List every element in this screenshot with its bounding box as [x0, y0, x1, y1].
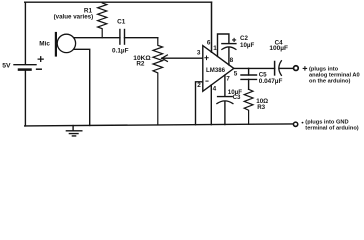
capacitor C5 bottom plate: [241, 78, 257, 80]
capacitor C4 curved plate: [279, 61, 282, 76]
svg-text:R2: R2: [136, 61, 145, 68]
dot before GND note: [302, 122, 304, 124]
svg-text:(value varies): (value varies): [54, 14, 94, 21]
svg-text:C1: C1: [117, 19, 126, 26]
capacitor C3 straight plate: [218, 96, 233, 98]
potentiometer R2 wiper arrowhead: [162, 55, 168, 61]
svg-text:8: 8: [230, 57, 234, 64]
svg-text:5V: 5V: [2, 63, 11, 70]
wire top rail 5V: [25, 1, 212, 3]
wire C5 to R3: [248, 79, 250, 89]
capacitor C2 curved plate: [222, 47, 236, 50]
wire pin 4 to ground: [210, 85, 212, 125]
output terminal A0 circle: [294, 66, 299, 71]
svg-text:0.047µF: 0.047µF: [259, 78, 283, 85]
svg-text:5: 5: [234, 70, 238, 77]
svg-text:4: 4: [213, 86, 217, 93]
svg-text:0.1µF: 0.1µF: [112, 48, 129, 55]
op-amp U1 LM386 triangle: [203, 46, 234, 92]
wire C2 bottom to pin 8: [228, 48, 230, 65]
op-amp plus input mark: [205, 56, 208, 60]
svg-text:on the arduino): on the arduino): [309, 78, 350, 84]
op-amp minus input mark: [206, 80, 208, 82]
capacitor C5 top plate: [241, 74, 257, 76]
svg-text:R3: R3: [257, 104, 265, 111]
plus mark before A0 note: [303, 67, 306, 70]
GND terminal circle: [293, 122, 297, 126]
wire output node down to C5: [248, 68, 250, 75]
svg-text:C3: C3: [233, 94, 241, 101]
wire battery to bottom rail: [24, 70, 26, 126]
battery minus sign: [37, 68, 42, 70]
microphone bar electrode: [55, 33, 57, 56]
potentiometer R2 wiper arrow wire to pin 3: [162, 57, 203, 59]
wire left rail to battery: [24, 2, 26, 64]
capacitor C3 curved plate: [217, 101, 233, 104]
svg-text:LM386: LM386: [206, 67, 226, 74]
resistor R3 zigzag: [244, 89, 253, 124]
potentiometer R2 zigzag: [153, 38, 163, 125]
svg-text:3: 3: [197, 50, 201, 57]
svg-text:Mic: Mic: [39, 41, 50, 48]
wire C3 bottom to ground rail: [224, 101, 226, 124]
wire pin 5 output: [234, 67, 275, 69]
capacitor C2 straight plate: [222, 43, 236, 45]
wire mic top terminal to node A: [74, 37, 120, 39]
C2 plus sign: [233, 38, 236, 41]
capacitor C1 left plate: [119, 30, 121, 45]
svg-text:100µF: 100µF: [269, 45, 288, 52]
wire pin 2 stub to ground: [196, 82, 203, 125]
wire C4 to output terminal: [279, 67, 293, 69]
wire pin 1 jog to C2: [218, 34, 229, 56]
capacitor C4 straight plate: [274, 62, 276, 75]
battery plus sign: [38, 57, 43, 62]
wire pin 7 to C3: [224, 75, 226, 96]
battery B1 short minus plate: [19, 68, 31, 71]
svg-text:10µF: 10µF: [240, 42, 254, 49]
svg-text:7: 7: [226, 76, 230, 83]
svg-text:2: 2: [197, 82, 201, 89]
wire C1 to R2 top: [125, 37, 158, 39]
ground symbol: [66, 126, 81, 136]
wire bottom ground rail: [25, 124, 294, 126]
svg-text:1: 1: [213, 45, 217, 52]
svg-text:terminal of arduino): terminal of arduino): [305, 125, 359, 131]
resistor R1 zigzag: [98, 2, 107, 38]
battery B1 long plus plate: [14, 64, 36, 66]
capacitor C1 right plate: [124, 30, 126, 45]
svg-text:6: 6: [207, 40, 211, 47]
wire mic lower terminal to ground: [74, 49, 90, 125]
microphone circle: [57, 34, 75, 52]
wire pin 6 to top rail: [211, 2, 213, 52]
